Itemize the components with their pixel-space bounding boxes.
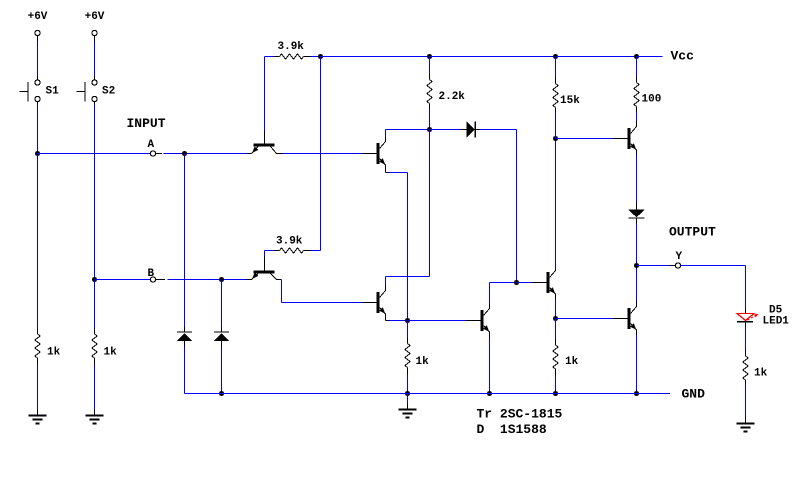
wire node A left [38, 153, 151, 155]
wire Q3 emitter to splitter emitter column [385, 169, 387, 173]
svg-text:+6V: +6V [85, 11, 105, 23]
transistor Q4 (phase splitter B) [362, 302, 377, 304]
resistor R8 1k (splitter emitter) [407, 338, 409, 344]
terminal B [150, 277, 155, 282]
resistor R10 1k (LED) [743, 356, 748, 380]
wire R7 to ground [94, 365, 96, 410]
svg-text:S2: S2 [102, 86, 115, 98]
wire Q3 collector to diode row [385, 130, 387, 137]
wire Q7 emitter down to D4 [636, 155, 638, 203]
resistor R3 2.2k [429, 57, 431, 74]
svg-text:D 1S1588: D 1S1588 [477, 422, 547, 437]
resistor R5 100 [636, 57, 638, 77]
junction B/D2 [219, 277, 224, 282]
wire Q2 collector to Q4 base [281, 280, 283, 303]
svg-text:B: B [148, 268, 155, 280]
junction Vcc/R3 [427, 54, 432, 59]
ground (below R7) [86, 415, 104, 417]
wire R10 to ground [745, 385, 747, 418]
svg-text:15k: 15k [560, 95, 580, 107]
wire Q6 collector node to Q7 base [556, 138, 614, 140]
svg-text:1k: 1k [754, 368, 768, 380]
junction R8/gnd rail [405, 391, 410, 396]
wire A node down to D1 [184, 154, 186, 328]
wire R8 to gnd rail [407, 374, 409, 394]
pushbutton switch S2 [92, 80, 97, 85]
wire Q5 collector up to row [489, 283, 491, 304]
wire Q8 emitter to gnd rail [636, 335, 638, 394]
terminal Y [675, 263, 680, 268]
svg-text:Vcc: Vcc [671, 49, 695, 64]
power +6V terminal (S1 top) [35, 30, 40, 35]
junction S1/A [35, 151, 40, 156]
svg-text:3.9k: 3.9k [276, 236, 303, 248]
svg-text:S1: S1 [46, 86, 60, 98]
wire Vcc rail 2 [430, 56, 556, 58]
wire Vcc rail end [637, 56, 663, 58]
svg-text:1k: 1k [416, 356, 430, 368]
wire Vcc rail [321, 56, 430, 58]
wire S2 to node B [94, 105, 96, 280]
junction Q5 emitter/gnd rail [487, 391, 492, 396]
junction splitter emitters [405, 318, 410, 323]
wire B node down to D2 [221, 280, 223, 328]
junction D3 column/Q5 collector row [514, 280, 519, 285]
diode D1 (input A clamp) [177, 331, 192, 333]
junction R4/Q6 collector [553, 136, 558, 141]
wire Q4 emitter to junction [385, 317, 387, 321]
diode D2 (input B clamp) [214, 331, 229, 333]
wire D3 cathode to corner [480, 129, 517, 131]
junction output node [634, 263, 639, 268]
wire gnd rail [185, 393, 671, 395]
svg-text:3.9k: 3.9k [278, 41, 305, 53]
wire +6V to S1 [37, 42, 39, 77]
wire Q5 collector row to D3 column [490, 282, 517, 284]
diode D4 (output level) [636, 203, 638, 210]
svg-text:Y: Y [676, 251, 683, 263]
LED D5 (LED1) [737, 314, 754, 321]
svg-text:100: 100 [642, 94, 662, 106]
svg-text:+6V: +6V [28, 11, 48, 23]
wire R9 to gnd rail [555, 376, 557, 394]
wire R2 right up to junction [311, 250, 321, 252]
wire junction down to R8 [407, 321, 409, 338]
transistor Q1 (input A) [264, 131, 266, 144]
wire Q1 collector to Q3 base [283, 153, 363, 155]
transistor Q5 (second stage) [481, 310, 484, 331]
wire diode row to D3 [430, 129, 462, 131]
svg-text:LED1: LED1 [763, 316, 790, 328]
junction A/D1 [182, 151, 187, 156]
wire A to Q1 emitter [163, 153, 247, 155]
wire gnd stub below rail [407, 394, 409, 404]
wire node B left [95, 279, 151, 281]
junction R9/gnd rail [553, 391, 558, 396]
svg-text:GND: GND [682, 387, 706, 402]
wire R2 corner down to Q2 base [264, 251, 266, 257]
wire Q6 collector up to R4 node [555, 139, 557, 269]
junction Vcc/R4 [553, 54, 558, 59]
wire Q4 collector up and right to R3 column [385, 277, 387, 286]
wire splitter emitters to Q5 base [408, 320, 466, 322]
wire S1 down to R6 [37, 154, 39, 329]
wire D3 column down [516, 130, 518, 283]
transistor Q8 (totem bottom) [628, 308, 631, 329]
wire D4 to output node [636, 224, 638, 266]
svg-text:A: A [148, 139, 155, 151]
junction Vcc/R5 [634, 54, 639, 59]
resistor R1 3.9k (Q1 base) [274, 56, 280, 58]
ground (center) [399, 409, 417, 411]
wire R1 to junction [311, 56, 321, 58]
resistor R2 3.9k (Q2 base) [265, 250, 274, 252]
terminal A [150, 151, 155, 156]
resistor R9 1k (Q6 emitter) [555, 339, 557, 345]
wire B to Q2 emitter [168, 279, 247, 281]
junction D2/gnd rail [219, 391, 224, 396]
svg-text:Tr 2SC-1815: Tr 2SC-1815 [477, 407, 563, 422]
svg-text:1k: 1k [565, 356, 579, 368]
wire LED column down [745, 266, 747, 309]
wire R6 to ground [37, 365, 39, 410]
wire R3 column down to Q4 collector row [429, 130, 431, 277]
power +6V terminal (S2 top) [92, 30, 97, 35]
ground (below LED) [737, 423, 755, 425]
transistor Q7 (totem top) [628, 128, 631, 149]
svg-text:1k: 1k [104, 347, 118, 359]
wire D1 to gnd rail [184, 347, 186, 394]
diode D3 (level shift) [467, 121, 475, 138]
resistor R7 1k (input B pulldown) [94, 329, 96, 335]
wire D2 to gnd rail [221, 347, 223, 394]
wire LED to R10 [745, 327, 747, 351]
svg-text:2.2k: 2.2k [439, 91, 466, 103]
wire Vcc rail 3 [556, 56, 637, 58]
transistor Q2 (input B) [264, 257, 266, 271]
wire S1 to node A [37, 105, 39, 154]
wire Q6 emitter node to Q8 base [556, 318, 614, 320]
svg-text:INPUT: INPUT [127, 116, 166, 131]
junction R3/diode row [427, 127, 432, 132]
wire Q6 emitter down to node [555, 299, 557, 319]
svg-text:OUTPUT: OUTPUT [669, 225, 716, 240]
wire Vcc corner down to Q1 base [264, 57, 266, 132]
transistor Q3 (phase splitter A) [362, 153, 377, 155]
junction Q8 emitter/gnd rail [634, 391, 639, 396]
wire Q8 collector up to output node [636, 266, 638, 302]
wire +6V to S2 [94, 42, 96, 77]
wire Vcc rail left corner [265, 56, 274, 58]
junction Q6 emitter node [553, 316, 558, 321]
junction S2/B [92, 277, 97, 282]
transistor Q6 (driver) [547, 272, 550, 293]
junction R1/Vcc rail [318, 54, 323, 59]
resistor R4 15k [555, 57, 557, 78]
svg-text:1k: 1k [47, 347, 61, 359]
wire Y to LED column [681, 265, 746, 267]
wire S2 down to R7 [94, 280, 96, 329]
ground (below R6) [29, 415, 47, 417]
wire Q5 collector row to Q6 base [517, 282, 532, 284]
pushbutton switch S1 [35, 80, 40, 85]
wire output node to Y [637, 265, 670, 267]
wire Q6 emitter node down to R9 [555, 319, 557, 340]
resistor R6 1k (input A pulldown) [37, 329, 39, 335]
wire Q5 emitter to gnd rail [489, 338, 491, 394]
